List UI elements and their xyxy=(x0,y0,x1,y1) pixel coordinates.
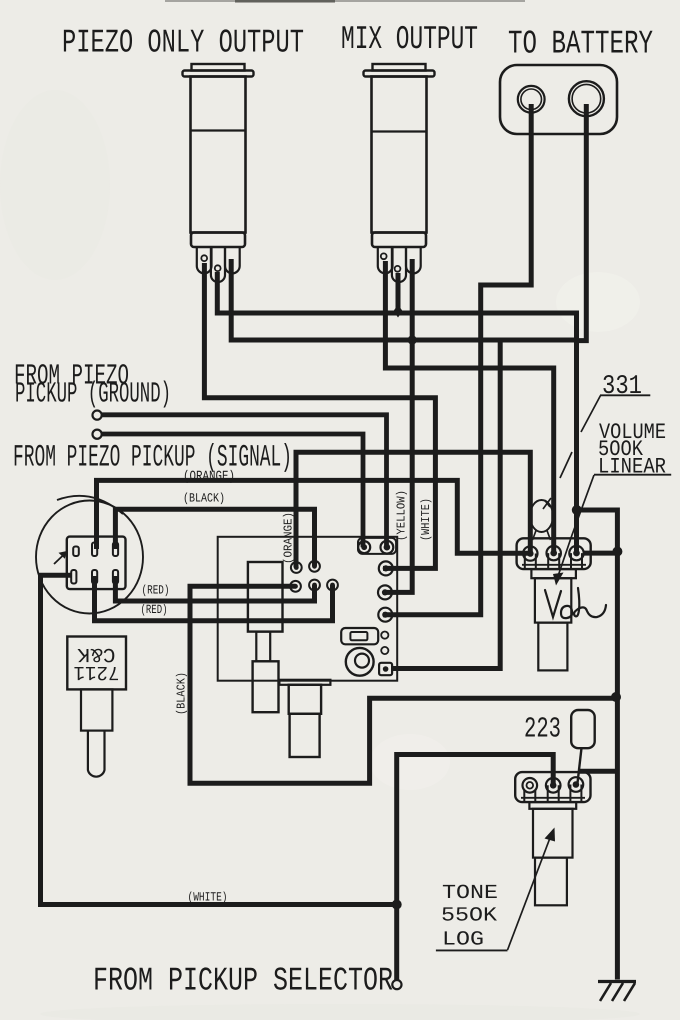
PCB pad r1c2 xyxy=(309,561,320,572)
wire: J2 sleeve drop to PCB ring C xyxy=(383,259,412,592)
wire: pickup selector up to tone middle lug xyxy=(397,755,554,981)
wire: J2 tip to volume middle lug xyxy=(385,261,553,553)
volume pot lug tabs xyxy=(525,553,582,569)
svg-text:(ORANGE): (ORANGE) xyxy=(282,512,296,564)
wire: right bus from volume net to ground xyxy=(577,510,618,980)
connector P1 balloon second stroke xyxy=(57,496,123,514)
arrow pointing at connector key xyxy=(54,551,67,564)
PCB small hole 1 xyxy=(381,632,388,639)
switch S1 toggle lever xyxy=(88,731,105,777)
wire: black from connector to PCB pad xyxy=(115,509,314,566)
tone pot collar xyxy=(529,802,576,809)
battery clip xyxy=(500,65,617,134)
tone pot lug tabs xyxy=(524,785,581,803)
wire: red 2 connector to PCB pad xyxy=(95,576,333,621)
leader arrow TONE/LOG to shaft xyxy=(508,828,556,951)
capacitor C1 (on PCB) body xyxy=(248,562,283,632)
terminal circle piezo ground 2 xyxy=(93,430,102,439)
PCB pad r2c3 xyxy=(327,580,338,591)
PCB ring B xyxy=(379,561,393,575)
PCB top box hole left xyxy=(358,541,370,553)
switch text 7211 / C&K rotated 180 xyxy=(74,642,120,683)
PCB pad r1c1 xyxy=(291,562,302,573)
PCB square pad xyxy=(379,663,392,675)
PCB ring D xyxy=(378,608,392,622)
wire: battery plus to PCB ring D xyxy=(383,104,531,615)
PCB square pad inner dot xyxy=(383,666,389,672)
jack J2 lug 2 xyxy=(392,247,406,282)
capacitor C3 lead xyxy=(578,748,582,783)
svg-text:FROM PICKUP SELECTOR: FROM PICKUP SELECTOR xyxy=(93,963,393,1000)
connector P1 (6-pin) hand-drawn balloon xyxy=(36,501,143,614)
tone pot lug rings xyxy=(523,778,538,793)
wire: black PCB pad loop to right bus xyxy=(190,586,616,783)
svg-text:223: 223 xyxy=(524,713,561,746)
svg-text:C&K: C&K xyxy=(78,642,116,665)
PCB slide switch knob xyxy=(350,632,367,640)
volume pot body xyxy=(517,538,591,569)
wire: piezo ground 2 to PCB top box left hole xyxy=(100,434,363,547)
PCB pad r2c1 xyxy=(290,581,301,592)
jack J1 lug 2 (ring) xyxy=(211,247,225,282)
capacitor C1 neck xyxy=(256,632,270,662)
svg-text:(RED): (RED) xyxy=(142,584,170,598)
switch S1 C&K 7211 body xyxy=(67,637,126,690)
PCB ring C xyxy=(378,585,392,599)
terminal circle pickup selector xyxy=(392,980,401,989)
junction dot right bus top xyxy=(572,505,582,515)
tone pot shaft lower xyxy=(535,858,567,906)
svg-text:MIX OUTPUT: MIX OUTPUT xyxy=(341,21,478,58)
svg-text:(YELLOW): (YELLOW) xyxy=(395,490,409,541)
PCB board outline xyxy=(218,537,398,681)
svg-text:331: 331 xyxy=(602,372,642,402)
junction diamond J2 lug2 xyxy=(394,305,403,318)
svg-text:LOG: LOG xyxy=(442,929,484,952)
jack J1 lug holes xyxy=(201,255,207,261)
wire: piezo signal to pad and volume lug1 xyxy=(296,452,530,567)
underline LINEAR xyxy=(594,474,671,476)
svg-text:(BLACK): (BLACK) xyxy=(175,672,189,715)
jack J2 lug 3 xyxy=(406,247,421,273)
wire: tone cap tie to right bus xyxy=(579,769,617,774)
jack J2 lug 1 xyxy=(378,247,393,273)
svg-text:PIEZO ONLY OUTPUT: PIEZO ONLY OUTPUT xyxy=(62,25,304,62)
volume pot collar xyxy=(531,569,576,578)
hand balloon on volume wire xyxy=(530,500,553,532)
wire: white from connector around box bottom xyxy=(41,575,397,904)
svg-text:(WHITE): (WHITE) xyxy=(419,498,433,541)
PCB top box hole right xyxy=(381,541,394,554)
wire: J1 tip down and over to PCB ring B xyxy=(204,263,435,568)
svg-text:(WHITE): (WHITE) xyxy=(188,891,228,905)
capacitor C2 flange xyxy=(279,680,330,685)
connector P1 pin slots xyxy=(71,543,118,584)
PCB pad r2c2 xyxy=(309,580,320,591)
svg-text:TONE: TONE xyxy=(442,882,498,905)
connector P1 body xyxy=(67,537,126,590)
volume pot shaft lower xyxy=(538,623,567,671)
PCB connector box (top right, 2 holes) xyxy=(358,538,396,554)
capacitor C1 foot xyxy=(253,661,279,712)
jack J2 lug holes xyxy=(381,253,387,259)
wire: branch down to PCB square pad xyxy=(392,340,500,669)
svg-text:(ORANGE): (ORANGE) xyxy=(183,469,235,485)
wire: battery minus down to main right bus xyxy=(577,104,587,341)
leader arrow VOLUME/LINEAR to shaft xyxy=(553,475,594,586)
scan artifact top edge line xyxy=(165,0,525,2)
hand tick above balloon xyxy=(543,498,551,509)
underline LOG xyxy=(436,949,508,951)
terminal circle piezo ground 1 xyxy=(93,411,102,420)
capacitor C3 "223" body xyxy=(571,710,595,748)
wire: J1 sleeve + J2 sleeve net xyxy=(231,259,576,340)
junction dot black loop / right bus xyxy=(611,692,621,702)
svg-text:(BLACK): (BLACK) xyxy=(183,492,225,506)
handwritten Vol script xyxy=(545,588,606,618)
junction dot volume lug3 tie xyxy=(612,547,622,557)
wire: orange from connector to volume lug1 xyxy=(97,480,531,553)
wire: J1 ring + J2 ring net to volume lug3 xyxy=(217,272,576,553)
svg-text:PICKUP (GROUND): PICKUP (GROUND) xyxy=(15,378,171,411)
tone pot shaft upper xyxy=(533,809,573,858)
PCB small hole 2 xyxy=(381,647,388,654)
wire: J2 lug2 stub to junction xyxy=(396,273,401,308)
svg-text:55OK: 55OK xyxy=(441,905,497,928)
leader line for 331 xyxy=(560,396,601,479)
jack J1 (PIEZO ONLY OUTPUT) body xyxy=(183,64,254,247)
volume pot shaft upper xyxy=(535,578,571,622)
svg-text:LINEAR: LINEAR xyxy=(598,455,666,480)
switch S1 bushing xyxy=(81,689,112,730)
junction dot J2 sleeve xyxy=(408,335,417,344)
tone pot body xyxy=(515,772,590,802)
PCB slide switch outline xyxy=(341,628,378,644)
jack J1 lug 3 xyxy=(225,247,240,273)
junction dot selector / white wire xyxy=(392,900,402,910)
ground symbol xyxy=(598,982,636,1002)
wire: volume lug3 tie to right bus xyxy=(583,551,617,556)
capacitor C2 lower body xyxy=(290,714,320,757)
jack J1 lug 1 (tip) xyxy=(197,247,212,273)
volume pot lug rings xyxy=(523,546,537,560)
jack J2 (MIX OUTPUT) body xyxy=(364,64,435,247)
svg-text:(RED): (RED) xyxy=(141,603,168,617)
wire: piezo ground 1 to PCB top box right hole xyxy=(100,415,387,547)
wire: red 1 connector to PCB pad xyxy=(115,576,314,601)
trimmer pot on PCB xyxy=(346,648,374,676)
capacitor C2 body xyxy=(289,685,321,714)
svg-text:TO BATTERY: TO BATTERY xyxy=(508,26,653,63)
underline 331 xyxy=(600,394,650,396)
connector P1 key mark xyxy=(73,547,79,557)
svg-text:FROM PIEZO PICKUP (SIGNAL): FROM PIEZO PICKUP (SIGNAL) xyxy=(13,441,292,476)
